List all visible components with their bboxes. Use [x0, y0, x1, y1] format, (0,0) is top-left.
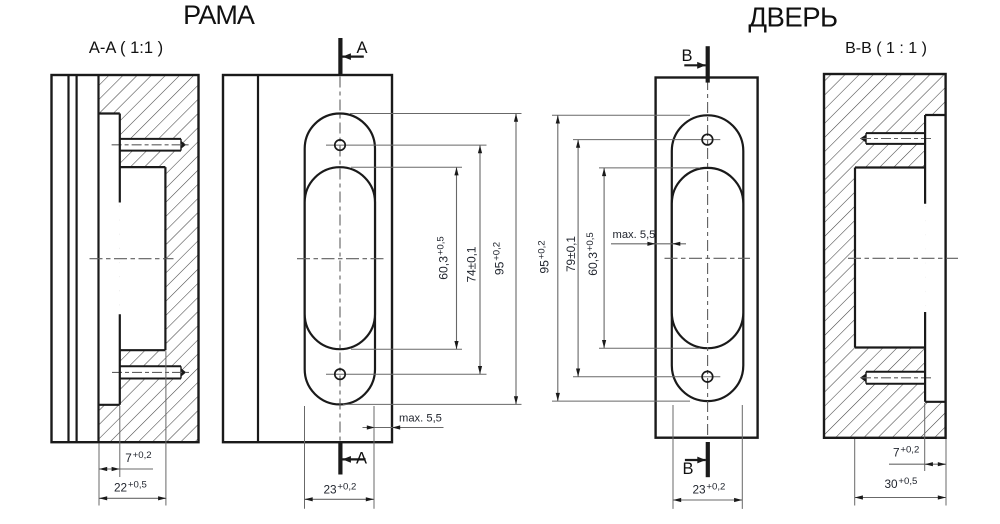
RAMA plate rectangle — [223, 75, 392, 442]
svg-text:A: A — [357, 39, 368, 57]
RAMA inner edge line — [257, 75, 259, 442]
A-A extension line x99 — [98, 444, 100, 506]
B-B top screw — [861, 133, 933, 144]
B-B dim 7+0,2 — [889, 444, 946, 466]
DVER inner obround — [672, 168, 744, 348]
RAMA dim 74±0,1 — [465, 145, 483, 374]
A-A deep pocket (white) — [120, 167, 166, 350]
A-A outer rectangle — [52, 75, 199, 442]
RAMA bottom hole — [335, 369, 345, 379]
svg-text:A-A ( 1:1 ): A-A ( 1:1 ) — [89, 39, 163, 57]
RAMA dim max 5,5 — [363, 413, 444, 430]
B-B bottom screw — [861, 372, 933, 384]
DVER extension line outer obround top — [552, 114, 690, 116]
A-A frame profile line 2 — [75, 75, 77, 442]
B-B flange pocket (white) — [925, 115, 946, 402]
DVER dim max 5,5 — [611, 229, 686, 246]
RAMA extension line inner obround top — [351, 166, 462, 168]
svg-text:B: B — [682, 47, 693, 65]
DVER plate rectangle — [656, 78, 758, 438]
B-B pocket outlines — [855, 115, 946, 402]
DVER vertical centerline — [707, 79, 709, 437]
RAMA inner obround — [305, 167, 375, 349]
RAMA extension line hole bottom — [326, 373, 487, 375]
DVER dim 60,3+0,5 — [585, 168, 606, 348]
DVER dim 79±0,1 — [564, 140, 580, 377]
RAMA extension line outer obround top — [350, 113, 522, 115]
B-B horizontal centerline — [848, 257, 958, 259]
RAMA outer obround — [305, 114, 375, 405]
DVER extension line hole bottom — [573, 376, 720, 378]
A-A dim 7+0,2 — [99, 450, 153, 471]
RAMA extension line hole top — [326, 144, 487, 146]
svg-text:max. 5,5: max. 5,5 — [613, 229, 656, 241]
A-A flange pocket (white) — [99, 114, 120, 405]
DVER extension line inner obround top — [599, 167, 700, 169]
A-A top screw — [112, 139, 190, 151]
B-B dim 30+0,5 — [855, 476, 946, 500]
A-A horizontal centerline — [90, 258, 174, 260]
DVER section mark B bottom — [683, 442, 708, 478]
A-A pocket outlines — [99, 114, 166, 405]
A-A bottom screw — [112, 366, 190, 378]
RAMA top hole — [335, 140, 345, 150]
DVER dim 23+0,2 — [673, 482, 742, 503]
A-A frame surface line — [97, 75, 99, 442]
RAMA horizontal centerline — [297, 258, 384, 260]
svg-text:ДВЕРЬ: ДВЕРЬ — [748, 2, 837, 33]
B-B deep pocket (white) — [855, 168, 925, 348]
RAMA extension line outer obround bottom — [343, 403, 522, 405]
A-A extension line x119.8 — [119, 406, 121, 477]
RAMA dim 95+0,2 — [492, 114, 519, 405]
A-A extension line x165.9 — [165, 351, 167, 505]
DVER horizontal centerline — [665, 257, 751, 259]
DVER extension line inner obround bottom — [599, 347, 700, 349]
DVER section mark B top — [682, 46, 708, 82]
B-B extension line x854.7 — [854, 439, 856, 506]
svg-text:РАМА: РАМА — [183, 0, 255, 30]
RAMA vertical centerline — [339, 77, 341, 442]
DVER outer obround — [672, 115, 744, 401]
svg-text:B: B — [683, 460, 694, 478]
B-B extension line x946 — [945, 439, 947, 506]
A-A dim 22+0,5 — [99, 480, 166, 501]
DVER extension line hole top — [573, 139, 720, 141]
RAMA ext lines 23 — [304, 406, 306, 509]
DVER extension line outer obround bottom — [552, 400, 690, 402]
svg-text:74±0,1: 74±0,1 — [465, 247, 479, 283]
B-B outer rectangle — [824, 74, 946, 438]
A-A frame profile line 1 — [67, 75, 69, 442]
section A-A hatched frame block — [99, 75, 199, 442]
svg-text:79±0,1: 79±0,1 — [564, 236, 578, 272]
DVER top hole — [702, 134, 713, 145]
RAMA section mark A bottom — [340, 443, 367, 475]
svg-text:max. 5,5: max. 5,5 — [399, 413, 442, 425]
DVER bottom hole — [702, 371, 713, 382]
RAMA dim 23+0,2 — [305, 482, 375, 502]
B-B extension line x924.7 — [924, 403, 926, 471]
DVER dim 95+0,2 — [537, 115, 560, 401]
RAMA dim 60,3+0,5 — [436, 167, 459, 349]
svg-text:A: A — [356, 450, 367, 468]
RAMA section mark A top — [340, 38, 367, 76]
RAMA extension line inner obround bottom — [351, 348, 462, 350]
svg-text:B-B ( 1 : 1 ): B-B ( 1 : 1 ) — [845, 40, 927, 57]
DVER ext lines 23 — [672, 405, 674, 509]
section B-B hatched door block — [824, 74, 946, 438]
